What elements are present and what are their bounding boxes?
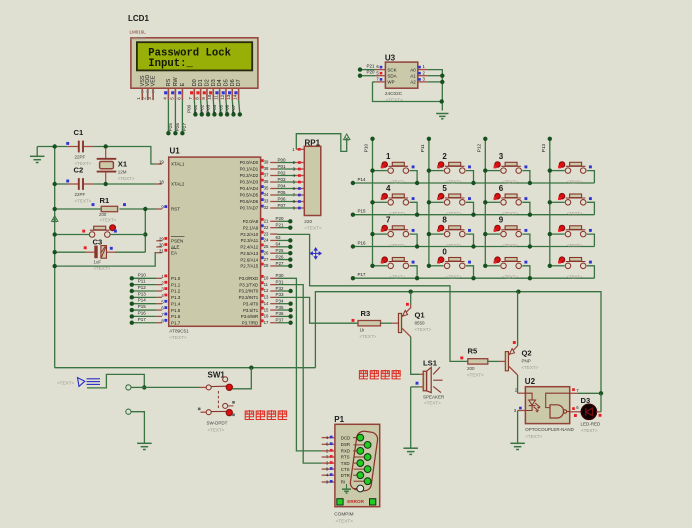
svg-text:AT89C51: AT89C51 (169, 328, 189, 333)
svg-text:<TEXT>: <TEXT> (118, 176, 135, 181)
power terminal near RP1 (344, 134, 350, 140)
wire VCC left rail (37, 146, 68, 148)
pin 6 U2 (570, 411, 581, 413)
svg-text:P17: P17 (138, 317, 147, 322)
ground U3 (436, 113, 448, 115)
svg-text:P20: P20 (367, 70, 376, 75)
svg-text:14: 14 (264, 301, 269, 306)
svg-text:29: 29 (159, 236, 164, 241)
battery symbol (78, 378, 101, 387)
svg-text:P2.0/A8: P2.0/A8 (243, 219, 259, 224)
push button keypad row4 col2 (427, 247, 476, 280)
svg-text:38: 38 (264, 166, 269, 171)
svg-text:2: 2 (442, 152, 447, 161)
svg-text:7: 7 (188, 97, 193, 100)
pin P2.2/A10 U1 right (270, 233, 277, 235)
wire RP1 pin1 to power (296, 134, 346, 152)
svg-text:<TEXT>: <TEXT> (415, 327, 432, 332)
svg-text:12M: 12M (118, 170, 127, 175)
svg-text:C3: C3 (93, 237, 103, 246)
wire LCD D5 to P05 net (226, 100, 227, 114)
svg-text:<TEXT>: <TEXT> (360, 334, 377, 339)
svg-text:P3.0/RXD: P3.0/RXD (239, 276, 258, 281)
push button keypad row2 col1 (370, 184, 419, 217)
pin P1.0 U1 left (156, 277, 162, 279)
pin P2.7/A15 U1 right (270, 265, 277, 267)
svg-text:P25: P25 (168, 123, 173, 132)
svg-text:<TEXT>: <TEXT> (581, 428, 598, 433)
ground SW area (137, 442, 152, 444)
svg-text:LED-RED: LED-RED (581, 421, 602, 426)
svg-text:LCD1: LCD1 (128, 14, 149, 23)
svg-text:P05: P05 (218, 104, 223, 113)
wire node P17 (132, 322, 157, 324)
origin marker (310, 248, 321, 259)
svg-text:P0.4/AD4: P0.4/AD4 (240, 186, 259, 191)
svg-text:22PF: 22PF (75, 192, 86, 197)
pin P0.6/AD6 U1 right (270, 201, 277, 203)
resistor R3 (358, 321, 381, 326)
wire P07 net to RP1 pin 9 (277, 207, 296, 209)
wire to SW1 pole (144, 386, 199, 388)
svg-text:WP: WP (387, 80, 394, 85)
pin 7 RP1 (296, 194, 304, 196)
push button keypad row3 col1 (370, 216, 419, 249)
svg-text:1uF: 1uF (94, 259, 102, 264)
wire node P32 (277, 290, 291, 292)
svg-text:D2: D2 (204, 79, 210, 86)
svg-text:P26: P26 (276, 254, 285, 259)
pin P1.7 U1 left (156, 322, 162, 324)
wire LCD to P26 net (174, 100, 176, 133)
wire LCD D1 to P01 net (201, 100, 202, 114)
svg-text:P1.2: P1.2 (171, 289, 181, 294)
svg-text:P0.7/AD7: P0.7/AD7 (240, 206, 259, 211)
svg-text:<TEXT>: <TEXT> (567, 243, 583, 248)
svg-text:31: 31 (159, 248, 164, 253)
svg-text:X1: X1 (118, 160, 128, 169)
svg-text:P10: P10 (364, 143, 369, 152)
svg-text:63: 63 (276, 235, 282, 240)
svg-text:P0.1/AD1: P0.1/AD1 (240, 167, 259, 172)
svg-text:P07: P07 (278, 203, 287, 208)
pin TXD P1 (322, 462, 335, 464)
wire keypad row P17 (353, 277, 595, 279)
svg-text:<TEXT>: <TEXT> (502, 180, 518, 185)
svg-text:64: 64 (276, 242, 282, 247)
svg-text:R5: R5 (468, 347, 478, 356)
wire node P10 (132, 277, 157, 279)
svg-text:P01: P01 (278, 164, 287, 169)
svg-text:<TEXT>: <TEXT> (567, 180, 583, 185)
svg-text:Q1: Q1 (415, 311, 426, 320)
svg-text:TXD: TXD (341, 461, 350, 466)
svg-text:P07: P07 (231, 104, 236, 113)
svg-text:<TEXT>: <TEXT> (390, 243, 406, 248)
wire Q2 collector to U2 (517, 375, 519, 393)
wire LCD to P27 net (181, 100, 183, 133)
wire keypad row P14 (353, 182, 595, 184)
wire P06 net to RP1 pin 8 (277, 201, 296, 203)
svg-text:27: 27 (264, 257, 269, 262)
svg-text:8: 8 (195, 97, 200, 100)
wire reset button row (55, 234, 90, 236)
pin P1.4 U1 left (156, 303, 162, 305)
wire Q2 emitter to rail (517, 292, 519, 346)
pin 7 U2 (578, 392, 601, 394)
svg-text:CTS: CTS (341, 467, 350, 472)
svg-text:P20: P20 (276, 216, 285, 221)
svg-text:P14: P14 (138, 298, 147, 303)
svg-text:D5: D5 (223, 79, 229, 86)
svg-text:A1: A1 (410, 73, 416, 78)
svg-text:D7: D7 (236, 79, 242, 86)
svg-text:10: 10 (207, 94, 212, 100)
pin P2.3/A11 U1 right (270, 239, 277, 241)
ground inside P1 (346, 484, 348, 489)
svg-text:P1.6: P1.6 (171, 314, 181, 319)
svg-text:<TEXT>: <TEXT> (100, 218, 117, 223)
svg-text:200: 200 (467, 366, 475, 371)
wire LCD to P25 net (167, 100, 169, 133)
wire keypad column P11 (428, 139, 430, 265)
push button keypad row2 col4 (548, 194, 595, 217)
svg-text:DSR: DSR (341, 442, 350, 447)
wire U2 pin3 to ground (517, 411, 519, 444)
memory U3 24C02C body (385, 62, 417, 88)
svg-text:12: 12 (220, 94, 225, 100)
svg-text:SDA: SDA (387, 73, 396, 78)
wire LCD D6 to P06 net (232, 100, 233, 114)
wire node P15 (132, 309, 157, 311)
svg-text:4: 4 (386, 184, 391, 193)
pin P2.4/A12 U1 right (270, 246, 277, 248)
pin SCK U3 left (375, 69, 385, 71)
pin P1.2 U1 left (156, 290, 162, 292)
svg-text:E: E (180, 82, 186, 86)
wire SW1 throw to VCC (232, 368, 251, 389)
svg-text:SW-DPDT: SW-DPDT (207, 421, 228, 426)
pin 3 RP1 (296, 168, 304, 170)
pin A2 U3 right (418, 81, 428, 83)
svg-text:P06: P06 (225, 104, 230, 113)
wire node P20 (277, 220, 290, 222)
resistor pack RP1 (304, 146, 321, 215)
svg-text:32: 32 (264, 205, 269, 210)
wire P03 net to RP1 pin 5 (277, 181, 296, 183)
svg-text:P31: P31 (276, 279, 285, 284)
push button keypad row4 col3 (483, 257, 532, 280)
svg-text:XTAL1: XTAL1 (171, 162, 185, 167)
wire keypad row P15 (353, 214, 595, 216)
svg-text:21: 21 (264, 219, 269, 224)
pin 6 RP1 (296, 188, 304, 190)
svg-text:25: 25 (264, 244, 269, 249)
svg-text:24: 24 (264, 238, 269, 243)
pin P3.5/T1 U1 right (270, 309, 277, 311)
svg-text:P0.2/AD2: P0.2/AD2 (240, 173, 259, 178)
svg-text:DTR: DTR (341, 473, 350, 478)
svg-text:P14: P14 (358, 177, 367, 182)
nand gate inside U2 (546, 393, 571, 418)
pin P3.7/RD U1 right (270, 322, 277, 324)
power terminal on rail (52, 216, 58, 222)
svg-text:P1.5: P1.5 (171, 308, 181, 313)
svg-text:D3: D3 (211, 79, 217, 86)
svg-text:19: 19 (159, 160, 164, 165)
svg-text:9: 9 (499, 216, 504, 225)
svg-text:<TEXT>: <TEXT> (390, 275, 406, 280)
svg-text:P3.7/RD: P3.7/RD (242, 320, 258, 325)
svg-text:D3: D3 (581, 396, 591, 405)
svg-text:18: 18 (159, 180, 164, 185)
svg-text:P3.3/INT1: P3.3/INT1 (239, 295, 259, 300)
svg-text:P04: P04 (212, 104, 217, 113)
svg-text:<TEXT>: <TEXT> (446, 275, 462, 280)
svg-text:P37: P37 (276, 318, 285, 323)
pin P3.4/T0 U1 right (270, 303, 277, 305)
svg-text:D6: D6 (230, 79, 236, 86)
wire LCD D3 to P03 net (213, 100, 214, 114)
svg-text:5: 5 (442, 184, 447, 193)
svg-text:0: 0 (442, 247, 447, 256)
wire P22 to R5 (277, 234, 468, 361)
svg-text:13: 13 (264, 295, 269, 300)
svg-text:P00: P00 (278, 157, 287, 162)
svg-text:P15: P15 (138, 304, 147, 309)
svg-text:23: 23 (264, 231, 269, 236)
svg-text:P12: P12 (476, 143, 481, 152)
wire node P14 (132, 303, 157, 305)
svg-text:P01: P01 (193, 104, 198, 113)
db9 connector outline (349, 430, 378, 491)
svg-text:RST: RST (171, 207, 180, 212)
svg-text:C1: C1 (74, 128, 84, 137)
svg-text:P1.4: P1.4 (171, 301, 181, 306)
svg-text:34: 34 (264, 192, 269, 197)
pin P0.4/AD4 U1 right (270, 188, 277, 190)
svg-text:P2.4/A12: P2.4/A12 (240, 245, 258, 250)
svg-text:30: 30 (159, 243, 164, 248)
svg-text:33: 33 (264, 199, 269, 204)
pin P3.6/WR U1 right (270, 315, 277, 317)
pin P3.2/INT0 U1 right (270, 290, 277, 292)
wire P01 net to RP1 pin 3 (277, 168, 296, 170)
wire LCD D4 to P04 net (220, 100, 221, 114)
svg-text:11: 11 (264, 282, 269, 287)
svg-text:DCD: DCD (341, 435, 351, 440)
svg-text:EA: EA (171, 250, 177, 255)
svg-text:<TEXT>: <TEXT> (446, 243, 462, 248)
svg-text:<TEXT>: <TEXT> (130, 36, 147, 41)
push button keypad row4 col4 (548, 257, 595, 280)
svg-text:COMPIM: COMPIM (334, 512, 353, 517)
svg-text:26: 26 (264, 250, 269, 255)
wire node P25 (277, 252, 290, 254)
svg-text:<TEXT>: <TEXT> (502, 211, 518, 216)
svg-text:17: 17 (264, 320, 269, 325)
wire A0 A1 A2 to ground (428, 70, 443, 111)
wire LCD D7 to P07 net (239, 100, 240, 114)
pin P3.1/TXD U1 right (270, 284, 277, 286)
pin P2.0/A8 U1 right (270, 220, 277, 222)
wire P00 net to RP1 pin 2 (277, 162, 296, 164)
svg-text:2: 2 (142, 97, 147, 100)
pin P1.3 U1 left (156, 296, 162, 298)
pin P1.5 U1 left (156, 309, 162, 311)
svg-text:7: 7 (386, 216, 391, 225)
svg-text:PSEN: PSEN (171, 239, 183, 244)
wire Q1 emitter to rail (410, 292, 412, 305)
svg-text:<TEXT>: <TEXT> (57, 381, 74, 386)
svg-text:8: 8 (442, 216, 447, 225)
pin 1 RP1 (296, 148, 304, 150)
pin P2.6/A14 U1 right (270, 259, 277, 261)
svg-text:P13: P13 (138, 291, 147, 296)
wire VCC bottom rail (315, 292, 601, 394)
wire WP to ground (373, 82, 442, 102)
svg-text:RP1: RP1 (305, 138, 321, 147)
capacitor C3 electrolytic (86, 251, 95, 253)
svg-text:P2.5/A13: P2.5/A13 (240, 251, 258, 256)
svg-text:PNP: PNP (522, 359, 531, 364)
pin 3 U2 (518, 410, 526, 412)
ground (36, 147, 38, 157)
pin P0.5/AD5 U1 right (270, 194, 277, 196)
svg-text:3: 3 (499, 152, 504, 161)
svg-text:<TEXT>: <TEXT> (390, 211, 406, 216)
wire P05 net to RP1 pin 7 (277, 194, 296, 196)
svg-text:P0.6/AD6: P0.6/AD6 (240, 199, 259, 204)
svg-text:ALE: ALE (171, 245, 180, 250)
wire node P35 (277, 309, 291, 311)
svg-text:<TEXT>: <TEXT> (446, 211, 462, 216)
svg-text:P2.2/A10: P2.2/A10 (240, 232, 258, 237)
node terminal circle top (126, 385, 131, 390)
wire Q1 collector to LS1 (411, 337, 420, 375)
ground LS1 (403, 447, 418, 449)
capacitor C2 (68, 183, 79, 185)
pin DCD P1 (322, 437, 335, 439)
svg-text:P0.5/AD5: P0.5/AD5 (240, 193, 259, 198)
svg-text:P12: P12 (138, 285, 147, 290)
pin 2 RP1 (296, 162, 304, 164)
svg-text:A0: A0 (410, 67, 416, 72)
svg-text:P05: P05 (278, 190, 287, 195)
svg-text:P3.6/WR: P3.6/WR (241, 314, 258, 319)
svg-text:P32: P32 (276, 286, 285, 291)
svg-text:U3: U3 (385, 54, 396, 63)
svg-text:24C02C: 24C02C (385, 91, 403, 96)
svg-text:1: 1 (136, 97, 141, 100)
pin 8 RP1 (296, 201, 304, 203)
svg-text:R3: R3 (361, 309, 371, 318)
pin 5 RP1 (296, 181, 304, 183)
push button keypad row4 col1 (370, 257, 419, 280)
wire node P34 (277, 303, 291, 305)
wire keypad column P10 (372, 139, 374, 265)
svg-text:Q2: Q2 (522, 349, 532, 358)
svg-text:<TEXT>: <TEXT> (522, 365, 539, 370)
push button keypad row3 col2 (427, 216, 476, 249)
wire keypad row P16 (353, 246, 595, 248)
svg-text:P03: P03 (278, 177, 287, 182)
pin P2.5/A13 U1 right (270, 252, 277, 254)
transistor Q1 8550 (398, 303, 431, 337)
svg-text:P1.1: P1.1 (171, 282, 181, 287)
svg-text:P27: P27 (276, 261, 285, 266)
wire P04 net to RP1 pin 6 (277, 188, 296, 190)
label alarm module (red chinese) (359, 370, 401, 380)
svg-text:16: 16 (264, 314, 269, 319)
svg-text:3: 3 (147, 97, 152, 100)
svg-text:<TEXT>: <TEXT> (502, 275, 518, 280)
svg-text:VEE: VEE (151, 75, 157, 86)
wire node P37 (277, 322, 291, 324)
wire terminal to ground (131, 412, 144, 444)
pin A1 U3 right (418, 75, 428, 77)
svg-text:P0.0/AD0: P0.0/AD0 (240, 160, 259, 165)
svg-text:P1.3: P1.3 (171, 295, 181, 300)
svg-text:P2.1/A9: P2.1/A9 (243, 225, 259, 230)
svg-text:RW: RW (173, 77, 179, 87)
push button keypad row2 col2 (427, 184, 476, 217)
svg-text:P16: P16 (358, 240, 367, 245)
pin PSEN U1 left (156, 240, 162, 242)
wire EA net (55, 253, 157, 266)
speaker LS1 (416, 359, 445, 406)
svg-text:P11: P11 (420, 144, 425, 152)
svg-text:P30: P30 (276, 273, 285, 278)
svg-text:37: 37 (264, 173, 269, 178)
wire node P27 (277, 265, 290, 267)
wire RST net (55, 208, 101, 210)
svg-text:P33: P33 (276, 292, 285, 297)
svg-text:15: 15 (264, 307, 269, 312)
svg-text:9: 9 (201, 97, 206, 100)
wire keypad column P13 (549, 139, 551, 265)
svg-text:P17: P17 (358, 272, 367, 277)
pin 4 RP1 (296, 175, 304, 177)
svg-text:P2.3/A11: P2.3/A11 (241, 238, 259, 243)
capacitor C1 (68, 146, 79, 148)
svg-text:A2: A2 (410, 80, 416, 85)
wire LCD D2 to P02 net (207, 100, 208, 114)
svg-text:12: 12 (264, 288, 269, 293)
pin P0.1/AD1 U1 right (270, 168, 277, 170)
wire node P16 (132, 315, 157, 317)
svg-text:P25: P25 (276, 248, 285, 253)
wire P30 to COMPIM RXD (277, 278, 322, 451)
wire node P20 U3 (360, 75, 375, 77)
transistor Q2 PNP (505, 341, 538, 375)
wire node P13 (132, 296, 157, 298)
switch SW1 SW-DPDT (198, 371, 235, 433)
svg-text:SPEAKER: SPEAKER (423, 394, 445, 399)
svg-text:4: 4 (162, 97, 167, 100)
pin P1.6 U1 left (156, 315, 162, 317)
wire node P26 (277, 259, 290, 261)
svg-text:22: 22 (264, 225, 269, 230)
pin EA U1 left (156, 252, 162, 254)
wire D3 anode (597, 411, 602, 413)
svg-text:P15: P15 (358, 209, 367, 214)
svg-text:XTAL2: XTAL2 (171, 182, 185, 187)
resistor R5 (468, 359, 488, 364)
wire C3 row (55, 251, 86, 253)
ERROR indicator (337, 499, 343, 505)
svg-text:220: 220 (304, 219, 312, 224)
